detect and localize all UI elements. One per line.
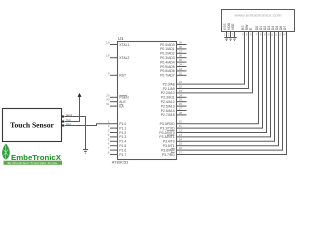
svg-text:P3.3/INT1: P3.3/INT1 bbox=[159, 135, 174, 139]
svg-text:25: 25 bbox=[179, 98, 183, 102]
svg-text:P2.2/A10: P2.2/A10 bbox=[161, 91, 175, 95]
ground/power symbol under LCD VSS bbox=[224, 38, 228, 41]
U1 right pin 16 P3.6/WR stub bbox=[161, 146, 186, 152]
svg-text:P2.0/A8: P2.0/A8 bbox=[163, 82, 175, 86]
U1 right pin 10 P3.0/RXD stub bbox=[160, 120, 187, 126]
U1 right pin 22 P2.1/A9 stub bbox=[163, 85, 187, 91]
U1 right pin 33 P0.6/AD6 stub bbox=[160, 67, 186, 73]
svg-text:P3.1/TXD: P3.1/TXD bbox=[160, 126, 175, 130]
svg-text:24: 24 bbox=[179, 93, 183, 97]
wire P2.0 to LCD RS bbox=[187, 38, 245, 85]
LCD pin 11 D4 stub bbox=[270, 26, 275, 38]
svg-text:31: 31 bbox=[106, 102, 110, 106]
svg-text:23: 23 bbox=[179, 89, 183, 93]
LCD pin 2 VDD stub bbox=[227, 22, 231, 37]
svg-text:EA: EA bbox=[119, 104, 124, 108]
wire P3.3 to LCD D3 bbox=[187, 38, 271, 137]
svg-text:26: 26 bbox=[179, 102, 183, 106]
svg-text:PSEN: PSEN bbox=[119, 96, 129, 100]
U1 left pin 5 P1.4 stub bbox=[108, 137, 127, 143]
svg-text:14: 14 bbox=[179, 137, 183, 141]
svg-text:6: 6 bbox=[250, 33, 252, 37]
svg-text:5: 5 bbox=[108, 137, 110, 141]
svg-text:P3.0/RXD: P3.0/RXD bbox=[160, 122, 176, 126]
LCD pin 5 RW stub bbox=[245, 24, 249, 38]
wire touch sensor Gnd to ground bbox=[65, 117, 86, 150]
U1 left pin 30 ALE stub bbox=[106, 98, 126, 104]
svg-text:D7: D7 bbox=[283, 26, 287, 30]
U1 right pin 26 P2.5/A13 stub bbox=[161, 102, 187, 108]
U1 left pin 8 P1.7 stub bbox=[108, 151, 127, 157]
svg-text:18: 18 bbox=[106, 54, 110, 58]
wire P3.0 to LCD D0 bbox=[187, 38, 259, 124]
LCD pin 1 VSS stub bbox=[223, 23, 227, 38]
wire P3.5 to LCD D5 bbox=[187, 38, 279, 146]
svg-text:39: 39 bbox=[179, 41, 183, 45]
svg-text:P0.2/AD2: P0.2/AD2 bbox=[160, 52, 175, 56]
svg-text:P3.6/WR: P3.6/WR bbox=[161, 148, 175, 152]
U1 right pin 36 P0.3/AD3 stub bbox=[160, 54, 186, 60]
wire P3.2 to LCD D2 bbox=[187, 38, 267, 133]
svg-text:10: 10 bbox=[266, 33, 270, 37]
svg-text:RST: RST bbox=[119, 74, 126, 78]
svg-text:P3.5/T1: P3.5/T1 bbox=[163, 144, 175, 148]
svg-text:P2.5/A13: P2.5/A13 bbox=[161, 104, 175, 108]
U1 right pin 32 P0.7/AD7 stub bbox=[160, 71, 186, 77]
svg-text:22: 22 bbox=[179, 85, 183, 89]
svg-text:16: 16 bbox=[179, 146, 183, 150]
U1 right pin 21 P2.0/A8 stub bbox=[163, 80, 187, 86]
svg-text:P0.6/AD6: P0.6/AD6 bbox=[160, 69, 175, 73]
svg-text:P1.2: P1.2 bbox=[119, 131, 126, 135]
U1 right pin 12 P3.2/INT0 stub bbox=[159, 129, 186, 135]
svg-text:19: 19 bbox=[106, 41, 110, 45]
svg-text:P2.3/A11: P2.3/A11 bbox=[161, 96, 175, 100]
svg-text:P1.3: P1.3 bbox=[119, 135, 126, 139]
svg-text:32: 32 bbox=[179, 71, 183, 75]
ground symbol GND bbox=[83, 150, 88, 154]
VCC power arrow symbol bbox=[78, 93, 81, 96]
svg-text:Touch Sensor: Touch Sensor bbox=[10, 121, 54, 130]
U1 right pin 25 P2.4/A12 stub bbox=[161, 98, 187, 104]
svg-text:P2.4/A12: P2.4/A12 bbox=[161, 100, 175, 104]
U1 left pin 7 P1.6 stub bbox=[108, 146, 127, 152]
svg-text:3: 3 bbox=[232, 33, 234, 37]
touch sensor module body bbox=[3, 109, 62, 142]
ground/power symbol under LCD VDD bbox=[228, 38, 232, 41]
U1 right pin 35 P0.4/AD4 stub bbox=[160, 58, 186, 64]
wire touch sensor Out to U1 P1.0 bbox=[65, 124, 110, 126]
svg-text:30: 30 bbox=[106, 98, 110, 102]
svg-text:13: 13 bbox=[179, 133, 183, 137]
svg-text:ALE: ALE bbox=[119, 100, 126, 104]
svg-text:XTAL1: XTAL1 bbox=[119, 43, 129, 47]
U1 right pin 14 P3.4/T0 stub bbox=[163, 137, 187, 143]
svg-text:29: 29 bbox=[106, 93, 110, 97]
U1 left pin 4 P1.3 stub bbox=[108, 133, 127, 139]
svg-text:35: 35 bbox=[179, 58, 183, 62]
wire P2.1 to LCD RW bbox=[187, 38, 249, 89]
svg-text:P3.4/T0: P3.4/T0 bbox=[163, 140, 175, 144]
svg-text:P0.7/AD7: P0.7/AD7 bbox=[160, 74, 175, 78]
svg-text:1: 1 bbox=[224, 33, 226, 37]
wire P3.1 to LCD D1 bbox=[187, 38, 263, 129]
svg-text:5: 5 bbox=[246, 33, 248, 37]
svg-text:P1.0: P1.0 bbox=[119, 122, 126, 126]
U1 left pin 3 P1.2 stub bbox=[108, 129, 127, 135]
logo banner Embedded Tutorials Zone bbox=[4, 161, 63, 165]
svg-text:9: 9 bbox=[108, 71, 110, 75]
wire P2.2 to LCD E bbox=[187, 38, 253, 93]
U1 right pin 37 P0.2/AD2 stub bbox=[160, 49, 186, 55]
svg-text:P0.1/AD1: P0.1/AD1 bbox=[160, 47, 175, 51]
svg-text:21: 21 bbox=[179, 80, 183, 84]
svg-text:P1.5: P1.5 bbox=[119, 144, 126, 148]
svg-text:AT89C51: AT89C51 bbox=[112, 160, 129, 165]
svg-text:P2.1/A9: P2.1/A9 bbox=[163, 87, 175, 91]
svg-text:www.embetronicx.com: www.embetronicx.com bbox=[235, 13, 282, 17]
touch sensor pin Gnd bbox=[62, 113, 72, 118]
LCD pin 14 D7 stub bbox=[282, 26, 287, 38]
U1 right pin 11 P3.1/TXD stub bbox=[160, 124, 187, 130]
wire P3.4 to LCD D4 bbox=[187, 38, 275, 142]
svg-text:10: 10 bbox=[179, 120, 183, 124]
EmbeTronicX logo leaf icon bbox=[2, 144, 10, 160]
U1 right pin 13 P3.3/INT1 stub bbox=[159, 133, 186, 139]
svg-text:27: 27 bbox=[179, 107, 183, 111]
wire P3.7 to LCD D7 bbox=[187, 38, 287, 155]
svg-text:37: 37 bbox=[179, 49, 183, 53]
wire P3.6 to LCD D6 bbox=[187, 38, 283, 151]
svg-text:P0.0/AD0: P0.0/AD0 bbox=[160, 43, 175, 47]
svg-text:8: 8 bbox=[108, 151, 110, 155]
U1 right pin 38 P0.1/AD1 stub bbox=[160, 45, 186, 51]
U1 left pin 31 EA stub bbox=[106, 102, 125, 108]
U1 right pin 15 P3.5/T1 stub bbox=[163, 142, 187, 148]
LCD pin 8 D1 stub bbox=[259, 26, 263, 38]
svg-text:3: 3 bbox=[108, 129, 110, 133]
LCD pin 7 D0 stub bbox=[255, 26, 259, 38]
touch sensor pin Out bbox=[62, 122, 71, 127]
LCD pin 13 D6 stub bbox=[278, 26, 283, 38]
svg-text:P0.3/AD3: P0.3/AD3 bbox=[160, 56, 175, 60]
microcontroller U1 body bbox=[118, 42, 177, 160]
LCD pin 3 VEE stub bbox=[231, 23, 235, 38]
U1 right pin 23 P2.2/A10 stub bbox=[161, 89, 187, 95]
U1 left pin 6 P1.5 stub bbox=[108, 142, 127, 148]
U1 right pin 34 P0.5/AD5 stub bbox=[160, 63, 186, 69]
svg-text:38: 38 bbox=[179, 45, 183, 49]
svg-text:P3.2/INT0: P3.2/INT0 bbox=[159, 131, 174, 135]
LCD pin 9 D2 stub bbox=[263, 26, 267, 38]
U1 left pin 2 P1.1 stub bbox=[108, 124, 127, 130]
svg-text:7: 7 bbox=[108, 146, 110, 150]
svg-text:12: 12 bbox=[179, 129, 183, 133]
svg-text:8: 8 bbox=[260, 33, 262, 37]
svg-text:17: 17 bbox=[179, 151, 183, 155]
LCD pin 6 E stub bbox=[249, 27, 253, 38]
svg-text:Embedded Tutorials Zone: Embedded Tutorials Zone bbox=[8, 161, 58, 165]
svg-text:4: 4 bbox=[108, 133, 110, 137]
U1 left pin 9 RST stub bbox=[108, 71, 126, 77]
svg-text:P2.7/A15: P2.7/A15 bbox=[161, 113, 175, 117]
svg-text:U1: U1 bbox=[118, 36, 124, 41]
wire touch sensor Vcc to VCC bbox=[65, 96, 80, 121]
svg-text:VEE: VEE bbox=[231, 23, 235, 30]
U1 left pin 19 XTAL1 stub bbox=[106, 41, 129, 47]
LCD pin 12 D5 stub bbox=[274, 26, 279, 38]
svg-text:2: 2 bbox=[228, 33, 230, 37]
svg-text:36: 36 bbox=[179, 54, 183, 58]
svg-text:XTAL2: XTAL2 bbox=[119, 56, 129, 60]
LCD module body bbox=[222, 10, 295, 32]
U1 left pin 1 P1.0 stub bbox=[108, 120, 127, 126]
svg-text:P1.4: P1.4 bbox=[119, 140, 126, 144]
svg-text:P1.1: P1.1 bbox=[119, 126, 126, 130]
svg-text:14: 14 bbox=[282, 33, 286, 37]
U1 right pin 27 P2.6/A14 stub bbox=[161, 107, 187, 113]
U1 right pin 24 P2.3/A11 stub bbox=[161, 93, 187, 99]
svg-text:33: 33 bbox=[179, 67, 183, 71]
U1 left pin 29 PSEN stub bbox=[106, 93, 129, 99]
LCD pin 4 RS stub bbox=[241, 25, 245, 38]
U1 right pin 28 P2.7/A15 stub bbox=[161, 111, 187, 117]
LCD pin 10 D3 stub bbox=[266, 26, 271, 38]
svg-text:P0.4/AD4: P0.4/AD4 bbox=[160, 60, 175, 64]
svg-text:34: 34 bbox=[179, 63, 183, 67]
svg-text:28: 28 bbox=[179, 111, 183, 115]
svg-text:P1.7: P1.7 bbox=[119, 153, 126, 157]
ground/power symbol under LCD VEE bbox=[232, 38, 236, 41]
svg-text:1: 1 bbox=[108, 120, 110, 124]
svg-text:P2.6/A14: P2.6/A14 bbox=[161, 109, 175, 113]
touch sensor pin Vcc bbox=[62, 118, 72, 123]
svg-text:2: 2 bbox=[108, 124, 110, 128]
U1 right pin 17 P3.7/RD stub bbox=[162, 151, 187, 157]
svg-text:15: 15 bbox=[179, 142, 183, 146]
svg-text:4: 4 bbox=[242, 33, 244, 37]
svg-text:P3.7/RD: P3.7/RD bbox=[162, 153, 175, 157]
svg-text:6: 6 bbox=[108, 142, 110, 146]
U1 left pin 18 XTAL2 stub bbox=[106, 54, 129, 60]
svg-text:P0.5/AD5: P0.5/AD5 bbox=[160, 65, 175, 69]
svg-text:7: 7 bbox=[256, 33, 258, 37]
svg-text:P1.6: P1.6 bbox=[119, 148, 126, 152]
U1 right pin 39 P0.0/AD0 stub bbox=[160, 41, 186, 47]
svg-text:11: 11 bbox=[179, 124, 182, 128]
